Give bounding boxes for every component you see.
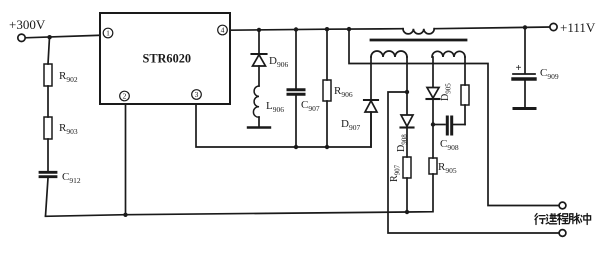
svg-text:+: + — [516, 63, 522, 74]
svg-text:STR6020: STR6020 — [143, 52, 192, 66]
svg-text:D905: D905 — [440, 83, 453, 101]
svg-text:3: 3 — [195, 90, 199, 99]
svg-text:C907: C907 — [301, 99, 320, 113]
svg-text:2: 2 — [123, 92, 127, 101]
svg-text:C908: C908 — [440, 138, 459, 152]
svg-text:C909: C909 — [540, 67, 559, 81]
svg-text:R902: R902 — [59, 70, 78, 84]
svg-text:D906: D906 — [269, 55, 288, 69]
svg-text:D907: D907 — [341, 118, 360, 132]
svg-text:R903: R903 — [59, 122, 78, 136]
svg-text:C912: C912 — [62, 171, 81, 185]
svg-text:4: 4 — [221, 26, 225, 35]
svg-text:R905: R905 — [438, 161, 457, 175]
svg-text:L906: L906 — [266, 100, 284, 114]
svg-text:D908: D908 — [396, 134, 409, 152]
svg-text:+111V: +111V — [560, 20, 596, 35]
svg-text:R906: R906 — [334, 85, 353, 99]
svg-text:+300V: +300V — [9, 17, 46, 32]
svg-text:1: 1 — [106, 29, 110, 38]
svg-text:R907: R907 — [389, 164, 402, 182]
